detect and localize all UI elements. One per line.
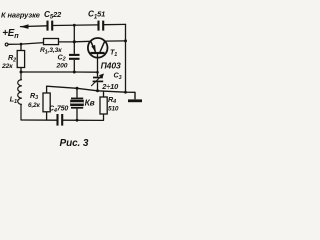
resistor R1 <box>44 39 59 45</box>
node collector/right rail <box>124 39 127 42</box>
transistor T1 <box>88 38 108 72</box>
wire mid rail <box>21 71 98 73</box>
node R2/L1 <box>20 71 23 74</box>
svg-text:510: 510 <box>108 105 119 112</box>
wire R2 bottom lead <box>20 68 22 73</box>
crystal Kv <box>70 88 84 120</box>
svg-text:П403: П403 <box>101 60 121 70</box>
wire collector <box>105 40 126 42</box>
resistor R3 <box>43 86 50 120</box>
node right rail bottom <box>124 91 127 94</box>
node R2 top <box>20 43 23 46</box>
wire R2 top lead <box>20 44 22 50</box>
node C2 bottom <box>73 71 76 74</box>
svg-text:22к: 22к <box>1 63 13 70</box>
wire top rail <box>21 25 47 28</box>
node C3 bottom <box>96 89 99 92</box>
terminal +Ep <box>5 43 8 46</box>
node top C5/C1 tap <box>73 24 76 27</box>
svg-text:К нагрузке: К нагрузке <box>1 11 40 20</box>
ground <box>128 92 142 101</box>
svg-text:2÷10: 2÷10 <box>101 82 119 91</box>
capacitor C3 trimmer <box>91 72 104 91</box>
node junction dots <box>20 24 128 122</box>
svg-text:Кв: Кв <box>85 97 95 107</box>
capacitor C1 <box>99 21 104 31</box>
inductor L1 <box>18 72 22 120</box>
node C2 top <box>73 40 76 43</box>
wire supply rail <box>8 43 43 45</box>
resistor R4 <box>100 91 107 120</box>
wire right vertical <box>125 24 127 92</box>
node crystal top <box>76 87 79 90</box>
svg-text:Рис. 3: Рис. 3 <box>60 138 89 149</box>
wire base-bottom rail <box>47 86 135 92</box>
svg-text:200: 200 <box>56 63 68 70</box>
node base <box>96 71 99 74</box>
node crystal bottom <box>76 119 79 122</box>
capacitor C4 <box>58 114 63 126</box>
resistor R2 <box>17 51 24 68</box>
svg-text:6,2к: 6,2к <box>28 102 41 109</box>
capacitor C5 <box>48 21 53 31</box>
wire C5-C1 node drop <box>73 25 75 42</box>
arrow to load <box>20 24 28 29</box>
capacitor C2 <box>69 42 80 72</box>
wire bottom rail <box>21 119 56 121</box>
